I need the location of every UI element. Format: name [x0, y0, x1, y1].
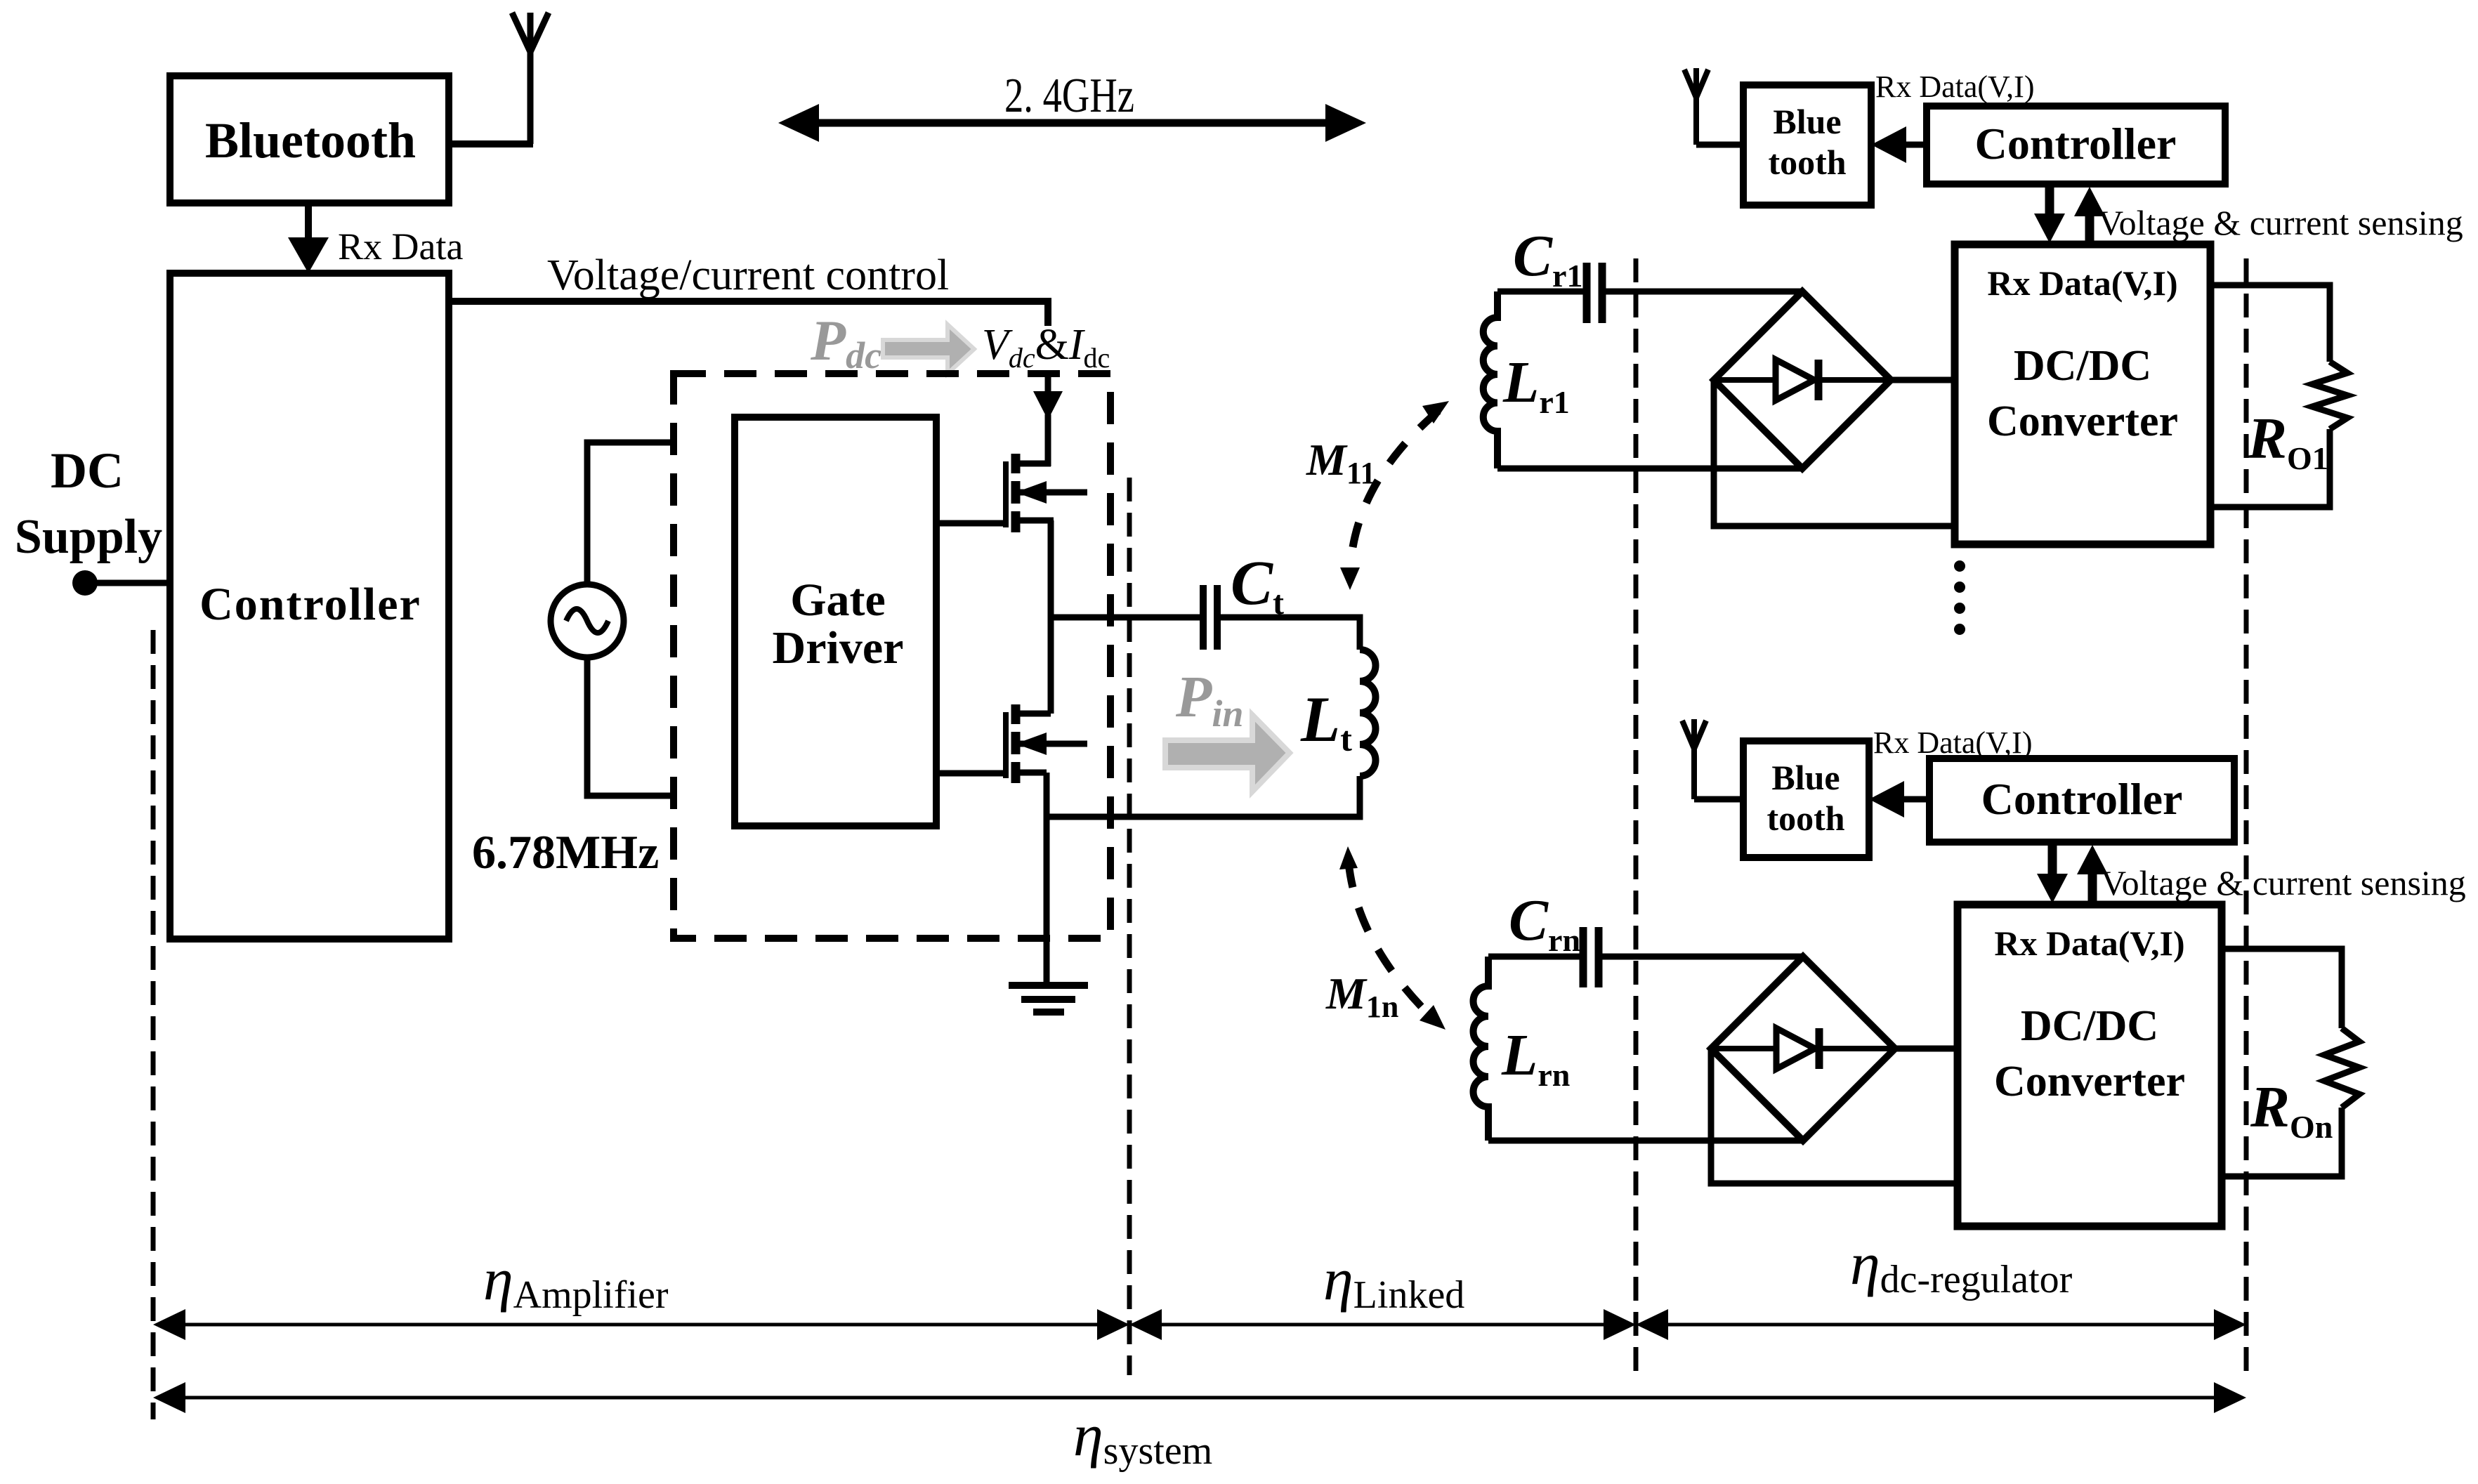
section boundary dashed line left [151, 630, 156, 1419]
wire Controller to Bluetooth arrow rn [1869, 781, 1929, 817]
wire load bottom r1 [2210, 429, 2330, 507]
capacitor Crn [1583, 927, 1599, 987]
svg-text:Bluetooth: Bluetooth [205, 112, 416, 169]
amplifier dashed box [674, 374, 1110, 938]
capacitor Cr1 [1587, 263, 1602, 323]
rectifier bridge rn [1711, 957, 1895, 1141]
wire Rx Data arrow (Bluetooth to Controller) [288, 203, 329, 273]
wire supply drop with arrowhead to Q1 drain [1033, 375, 1063, 466]
svg-text:6.78MHz: 6.78MHz [472, 825, 659, 879]
svg-text:Converter: Converter [1987, 398, 2178, 445]
wire load bottom rn [2222, 1108, 2342, 1176]
svg-text:DC: DC [51, 442, 124, 499]
section boundary dashed line right [2244, 258, 2249, 1375]
svg-text:Rx Data(V,I): Rx Data(V,I) [1873, 725, 2032, 760]
source 6.78MHz AC symbol [551, 584, 624, 657]
svg-text:Driver: Driver [773, 622, 904, 674]
node DC supply terminal dot [72, 570, 98, 596]
inductor Lt [1360, 650, 1376, 776]
ground [1009, 985, 1088, 1012]
svg-text:Supply: Supply [15, 510, 162, 564]
rectifier bridge r1 [1714, 291, 1891, 468]
section boundary dashed line linked/dc-regulator [1634, 258, 1639, 1375]
svg-text:Voltage & current sensing: Voltage & current sensing [2098, 203, 2463, 242]
wire Bluetooth to antenna [447, 140, 533, 147]
wire half-bridge node vertical [1048, 520, 1054, 714]
block Controller RX r1 [1927, 106, 2225, 184]
wire bridge return rn [1711, 1049, 1958, 1183]
wire span arrow eta-system [153, 1382, 2246, 1413]
antenna TX [512, 13, 549, 144]
wire Pdc gray arrow [883, 324, 974, 374]
wire DC/DC to Controller up arrow r1 [2074, 187, 2105, 244]
wire DC/DC to Controller up arrow rn [2077, 845, 2108, 905]
antenna RX rn [1682, 719, 1706, 799]
svg-text:Blue: Blue [1773, 102, 1841, 141]
wire Controller to DC/DC down arrow r1 [2034, 184, 2065, 243]
block Controller TX [170, 273, 449, 939]
resistor RO1 [2312, 362, 2347, 429]
wire Lt to return [1047, 776, 1360, 817]
svg-text:2. 4GHz: 2. 4GHz [1004, 69, 1134, 123]
antenna RX r1 [1684, 68, 1708, 145]
svg-text:Blue: Blue [1771, 758, 1840, 797]
wire resonator bottom r1 [1497, 466, 1802, 472]
section boundary dashed line amplifier/linked [1127, 478, 1132, 1375]
wire gate drive to Q2 [936, 770, 1006, 777]
wire 2.4GHz double-headed arrow [778, 104, 1366, 142]
svg-text:Controller: Controller [1975, 119, 2177, 169]
wire bridge return r1 [1714, 380, 1955, 526]
wire M1n coupling dashed arc [1339, 846, 1445, 1030]
svg-text:Controller: Controller [199, 579, 421, 630]
svg-text:Converter: Converter [1994, 1058, 2185, 1105]
svg-text:Rx Data(V,I): Rx Data(V,I) [1875, 70, 2034, 104]
wire node to Ct [1051, 615, 1200, 621]
block Gate Driver [735, 417, 936, 826]
wire bridge to DC/DC rn [1895, 1046, 1958, 1052]
wire resonator top rn [1488, 954, 1580, 960]
svg-text:tooth: tooth [1768, 143, 1846, 182]
source 6.78MHz loop wires [587, 442, 674, 796]
inductor Lr1 [1483, 291, 1497, 468]
block Bluetooth TX [170, 76, 449, 203]
wire load top r1 [2210, 285, 2330, 362]
block Bluetooth RX rn [1743, 741, 1869, 858]
svg-text:Gate: Gate [790, 574, 886, 626]
wire Voltage/current control (Controller to half-bridge supply) [449, 298, 1048, 326]
svg-text:Controller: Controller [1981, 774, 2183, 824]
svg-text:Rx Data(V,I): Rx Data(V,I) [1994, 924, 2184, 963]
svg-text:tooth: tooth [1766, 799, 1844, 838]
wire antenna to Bluetooth r1 [1696, 142, 1743, 148]
svg-text:Rx Data: Rx Data [338, 225, 463, 268]
capacitor Ct [1203, 585, 1217, 650]
wire span arrow eta-Amplifier [153, 1309, 1129, 1340]
wire Q2 source to ground [1044, 773, 1050, 987]
resistor ROn [2324, 1028, 2359, 1108]
wire antenna to Bluetooth rn [1694, 796, 1743, 803]
wire Ct to Lt [1221, 617, 1360, 650]
svg-text:Voltage & current sensing: Voltage & current sensing [2101, 863, 2466, 902]
block DC/DC Converter r1 [1955, 244, 2210, 544]
inductor Lrn [1474, 957, 1489, 1141]
block DC/DC Converter rn [1958, 905, 2222, 1226]
svg-text:DC/DC: DC/DC [2021, 1002, 2158, 1050]
svg-text:Rx Data(V,I): Rx Data(V,I) [1987, 263, 2177, 303]
wire resonator top r1 [1497, 289, 1584, 295]
wire gate drive to Q1 [936, 520, 1006, 527]
wire bridge to DC/DC r1 [1891, 377, 1955, 383]
wire load top rn [2222, 949, 2342, 1028]
svg-text:DC/DC: DC/DC [2014, 342, 2151, 390]
wire span arrow eta-Linked [1129, 1309, 1636, 1340]
wire DC supply to Controller [85, 580, 170, 586]
wire Controller to DC/DC down arrow rn [2037, 842, 2068, 903]
wire span arrow eta-dc-regulator [1636, 1309, 2246, 1340]
svg-text:Voltage/current control: Voltage/current control [547, 251, 949, 299]
wire M11 coupling dashed arc [1340, 401, 1449, 590]
wire Controller to Bluetooth arrow r1 [1871, 126, 1927, 163]
wire resonator bottom rn [1488, 1138, 1803, 1144]
wire Pin gray arrow [1165, 715, 1290, 792]
block Controller RX rn [1929, 759, 2234, 842]
block Bluetooth RX r1 [1743, 85, 1871, 205]
transistor Q2 (bottom MOSFET) [1006, 704, 1087, 783]
transistor Q1 (top MOSFET) [1006, 454, 1087, 532]
node continuation dots [1954, 560, 1965, 635]
